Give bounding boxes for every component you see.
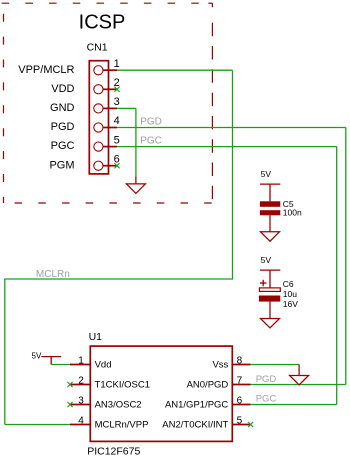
- svg-text:4: 4: [78, 416, 84, 427]
- svg-text:5V: 5V: [261, 255, 272, 265]
- svg-text:100n: 100n: [283, 207, 302, 217]
- capacitor C6 plates: [259, 288, 280, 292]
- CN1 pin 2 stub: [103, 88, 117, 90]
- wire PGC vertical right edge: [336, 147, 338, 405]
- svg-text:ICSP: ICSP: [79, 12, 126, 34]
- svg-text:T1CKI/OSC1: T1CKI/OSC1: [95, 380, 150, 391]
- svg-text:5: 5: [114, 134, 120, 146]
- wire MCLRn vertical left edge: [4, 279, 6, 425]
- wire 5V to U1 pin 1: [51, 364, 70, 366]
- capacitor C5 plates: [260, 201, 280, 207]
- CN1 pin 5 stub: [103, 146, 117, 148]
- connector CN1 body: [89, 61, 108, 174]
- svg-text:10u: 10u: [283, 289, 297, 299]
- CN1 pin 1 circle: [94, 66, 103, 75]
- U1 pin 2 stub: [70, 384, 90, 386]
- CN1 pin 1 stub: [103, 69, 117, 71]
- no-connect X on U1 pin 5: [248, 422, 253, 427]
- svg-text:2: 2: [78, 376, 84, 387]
- svg-text:PGC: PGC: [256, 394, 277, 405]
- svg-text:6: 6: [237, 396, 243, 407]
- svg-text:5: 5: [237, 416, 243, 427]
- svg-text:AN3/OSC2: AN3/OSC2: [95, 400, 142, 411]
- 5V supply symbol for C5: [260, 184, 280, 201]
- svg-text:C6: C6: [283, 279, 294, 289]
- svg-text:5V: 5V: [261, 169, 272, 179]
- svg-text:PGD: PGD: [140, 116, 162, 127]
- wire MCLRn to U1 pin 4: [5, 424, 70, 426]
- wire PGC horizontal from CN1 pin 5: [117, 146, 337, 148]
- wire VPP/MCLR horizontal from CN1 pin 1: [117, 69, 233, 71]
- no-connect X on U1 pin 2: [67, 382, 72, 387]
- wire MCLRn horizontal: [4, 278, 233, 280]
- ground symbol below CN1: [126, 177, 145, 194]
- wire PGD horizontal from CN1 pin 4: [117, 127, 346, 129]
- U1 pin 5 stub: [233, 424, 251, 426]
- svg-text:1: 1: [114, 58, 120, 70]
- svg-text:VPP/MCLR: VPP/MCLR: [18, 64, 74, 76]
- wire VPP/MCLR vertical down right side of ICSP box: [232, 70, 234, 279]
- svg-text:Vss: Vss: [212, 360, 228, 371]
- no-connect X on CN1 pin 6: [114, 163, 119, 168]
- svg-text:VDD: VDD: [51, 83, 74, 95]
- svg-text:5V: 5V: [32, 352, 42, 361]
- svg-text:U1: U1: [89, 331, 103, 343]
- no-connect X on CN1 pin 2: [114, 87, 119, 92]
- U1 pin 4 stub: [70, 424, 90, 426]
- svg-text:AN2/T0CKI/INT: AN2/T0CKI/INT: [162, 420, 228, 431]
- svg-text:PGD: PGD: [51, 121, 75, 133]
- U1 pin 6 stub: [233, 404, 251, 406]
- svg-text:PGC: PGC: [140, 135, 162, 146]
- svg-text:4: 4: [114, 115, 120, 127]
- svg-text:PGC: PGC: [51, 140, 75, 152]
- ground symbol at U1 Vss: [290, 365, 309, 385]
- CN1 pin 3 stub: [103, 107, 117, 109]
- wire GND vertical to ground: [135, 108, 137, 176]
- svg-text:MCLRn/VPP: MCLRn/VPP: [95, 420, 149, 431]
- 5V supply symbol for U1: [41, 357, 61, 365]
- svg-text:1: 1: [78, 356, 84, 367]
- svg-text:AN0/PGD: AN0/PGD: [187, 380, 229, 391]
- svg-text:MCLRn: MCLRn: [36, 269, 70, 280]
- wire GND from CN1 pin 3: [117, 107, 136, 109]
- svg-text:16V: 16V: [283, 299, 298, 309]
- CN1 pin 6 circle: [94, 161, 103, 170]
- U1 pin 8 stub: [233, 364, 251, 366]
- CN1 pin 4 stub: [103, 127, 117, 129]
- svg-text:PGD: PGD: [256, 374, 277, 385]
- wire PGC to U1 pin 6: [251, 404, 337, 406]
- wire PGD vertical right edge: [345, 128, 347, 385]
- U1 pin 1 stub: [70, 364, 90, 366]
- IC U1 body: [90, 346, 232, 441]
- svg-text:3: 3: [78, 396, 84, 407]
- svg-text:PIC12F675: PIC12F675: [87, 445, 140, 457]
- CN1 pin 2 circle: [94, 85, 103, 94]
- svg-text:AN1/GP1/PGC: AN1/GP1/PGC: [165, 400, 228, 411]
- wire Vss to ground: [251, 364, 300, 366]
- CN1 pin 3 circle: [94, 104, 103, 113]
- 5V supply symbol for C6: [260, 270, 280, 288]
- wire PGD to U1 pin 7: [251, 384, 346, 386]
- U1 pin 7 stub: [233, 384, 251, 386]
- ground symbol below C6: [261, 302, 280, 328]
- svg-text:CN1: CN1: [87, 41, 108, 53]
- svg-text:8: 8: [237, 356, 243, 367]
- ICSP dashed frame: [2, 3, 213, 203]
- capacitor C6 polarity plus: [260, 280, 266, 286]
- svg-text:7: 7: [237, 376, 243, 387]
- svg-text:PGM: PGM: [49, 159, 74, 171]
- svg-text:3: 3: [114, 96, 120, 108]
- svg-text:Vdd: Vdd: [95, 360, 112, 371]
- svg-text:GND: GND: [50, 102, 75, 114]
- CN1 pin 5 circle: [94, 142, 103, 151]
- CN1 pin 6 stub: [103, 165, 117, 167]
- U1 pin 3 stub: [70, 404, 90, 406]
- no-connect X on U1 pin 3: [67, 402, 72, 407]
- ground symbol below C5: [261, 215, 280, 241]
- CN1 pin 4 circle: [94, 123, 103, 132]
